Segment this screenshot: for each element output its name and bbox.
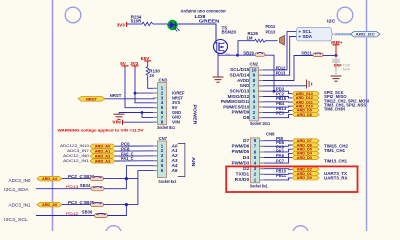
svg-text:D8: D8	[243, 115, 250, 120]
svg-text:POWER: POWER	[193, 105, 198, 125]
wire 5V to pin5	[125, 68, 158, 108]
wire GND pin6	[119, 112, 158, 114]
port ARD_D2	[292, 167, 319, 171]
svg-text:CN6: CN6	[266, 131, 275, 136]
port ARD_D11	[292, 100, 319, 104]
grid circle bottom-right	[293, 226, 309, 240]
svg-text:Socket 8x1: Socket 8x1	[250, 183, 268, 188]
svg-text:D7: D7	[243, 138, 250, 143]
svg-text:NRST: NRST	[86, 97, 98, 101]
svg-text:TIM1_CH1: TIM1_CH1	[324, 148, 346, 153]
svg-text:PWM/CS/D10: PWM/CS/D10	[223, 104, 250, 109]
wire I2C4_SDA row	[36, 188, 91, 190]
wire cn2 pin3 to port	[259, 105, 293, 108]
red highlight UART	[226, 166, 357, 192]
svg-text:ARD_A3: ARD_A3	[95, 159, 111, 163]
wire SB34 to node A4	[104, 179, 126, 189]
port ARD_A1	[90, 149, 115, 153]
sheet border left	[52, 0, 54, 231]
solder bridge SB33	[91, 177, 104, 181]
svg-text:ARD_A1: ARD_A1	[95, 149, 111, 153]
solder bridge SB34	[91, 187, 104, 191]
port ARD_D8	[292, 113, 319, 117]
port ARD_A0	[90, 144, 115, 148]
svg-text:SDA/D14: SDA/D14	[230, 73, 250, 78]
harness box SCL SDA	[297, 28, 335, 41]
junction dot D13	[273, 90, 276, 93]
node VREF junction	[335, 54, 338, 57]
port ARD_A5	[37, 202, 62, 207]
grid circle bottom-left	[106, 226, 122, 240]
svg-text:VIN: VIN	[172, 120, 180, 125]
svg-text:D4: D4	[243, 155, 250, 160]
wire SB33 to node	[104, 178, 138, 180]
ground cn2 rotated	[307, 80, 312, 89]
svg-text:SCL/D15: SCL/D15	[230, 67, 250, 72]
svg-text:PD13: PD13	[276, 71, 286, 76]
port ARD_D4	[292, 151, 319, 155]
junction dot IOREF	[134, 92, 137, 95]
wire SB36 to node A5	[108, 205, 127, 216]
wire I2C4_SCL row	[36, 215, 95, 217]
ground cn3	[118, 113, 120, 115]
wire GND pin7	[259, 85, 307, 87]
svg-text:ARD_A2: ARD_A2	[95, 154, 111, 158]
svg-text:ARD_A0: ARD_A0	[95, 145, 111, 149]
wire cn6 pin1 to port	[260, 178, 293, 180]
wire cn2 pin1 to port	[259, 115, 293, 118]
svg-text:PWM/D5: PWM/D5	[232, 149, 250, 154]
wire SB35 to node	[104, 204, 138, 206]
svg-text:PD13: PD13	[266, 29, 276, 34]
wire NRST to pin3	[105, 97, 158, 100]
svg-text:GND: GND	[240, 83, 250, 88]
wire GND pin7	[142, 113, 158, 118]
svg-text:PE3: PE3	[276, 110, 285, 115]
svg-text:VREF+: VREF+	[331, 40, 343, 45]
port ARD_A2	[90, 154, 115, 158]
svg-text:SB34: SB34	[80, 183, 91, 188]
sheet border right	[366, 0, 368, 31]
wire cn2 pin2 to port	[259, 110, 293, 112]
svg-text:CN2: CN2	[250, 62, 259, 67]
wire cn6 pin6 to port	[260, 149, 293, 152]
wire cn6 pin3 to port	[260, 168, 293, 171]
AIN bracket	[178, 143, 185, 176]
svg-text:1M: 1M	[247, 36, 253, 41]
wire cn6 pin7 to port	[260, 145, 293, 146]
wire A5 vertical pin6	[138, 171, 158, 205]
harness entry	[280, 36, 285, 46]
wire A3 pin4	[115, 160, 158, 162]
port ARD_I2C	[351, 32, 381, 37]
svg-text:TIM8_CH3N: TIM8_CH3N	[324, 107, 345, 112]
wire SCL from CN2 pin10	[259, 32, 299, 70]
capacitor C30 DNF	[335, 56, 337, 60]
svg-text:ADC3_IN1: ADC3_IN1	[9, 202, 32, 207]
solder bridge SB36	[95, 213, 108, 217]
junction dot R126	[236, 54, 239, 57]
grid circle top-left	[65, 7, 81, 23]
svg-text:1K: 1K	[149, 73, 155, 78]
wire LED to T5	[178, 24, 216, 41]
wire R234 to LED	[153, 23, 168, 25]
svg-text:Socket 10x1: Socket 10x1	[250, 121, 270, 126]
port ARD_D13	[292, 92, 319, 96]
wire drain row to SB29	[218, 54, 255, 56]
svg-text:AVDD: AVDD	[237, 78, 249, 83]
svg-text:PD12: PD12	[276, 65, 286, 70]
svg-text:ADC3_IN0: ADC3_IN0	[9, 178, 32, 183]
svg-text:ARD_D2: ARD_D2	[297, 168, 312, 172]
wire SB21 to VREF node	[323, 55, 336, 57]
svg-text:10: 10	[252, 67, 257, 72]
svg-text:VIN: VIN	[112, 119, 121, 124]
wire A4 vertical pin5	[126, 166, 157, 179]
svg-text:DNF: DNF	[334, 62, 343, 67]
svg-text:I2C4_SCL: I2C4_SCL	[4, 217, 29, 222]
svg-text:ARD_D0: ARD_D0	[297, 176, 312, 180]
ground under C30	[331, 76, 342, 81]
port ARD_A3	[90, 159, 115, 163]
port ARD_D6	[292, 143, 319, 147]
svg-text:ADC12_IN1: ADC12_IN1	[63, 158, 90, 163]
port ARD_A4	[37, 176, 62, 181]
svg-text:TIM13_CH1: TIM13_CH1	[324, 159, 348, 164]
wire IOREF branch	[135, 92, 158, 94]
port NRST	[78, 96, 105, 101]
ground under T5	[213, 77, 224, 82]
wire AVDD to SB21	[259, 56, 314, 81]
solder bridge SB35	[91, 203, 104, 207]
svg-text:ARD_A4: ARD_A4	[42, 177, 57, 181]
svg-text:PD12: PD12	[266, 24, 276, 29]
grid circle top-right	[337, 7, 353, 23]
wire cn6 pin4 to port	[260, 158, 293, 164]
port ARD_D10	[292, 104, 319, 108]
svg-text:5V: 5V	[120, 61, 126, 66]
wire cn2 pin5 to port	[259, 97, 293, 98]
svg-text:BSN20: BSN20	[222, 30, 237, 35]
svg-text:PWM/D3: PWM/D3	[232, 160, 250, 165]
svg-text:PB11: PB11	[276, 173, 287, 178]
wire SDA from CN2 pin9	[259, 37, 299, 76]
svg-text:RX/D0: RX/D0	[235, 177, 250, 182]
svg-text:SB29: SB29	[243, 51, 254, 56]
port ARD_D0	[292, 176, 319, 180]
wire cn6 pin5 to port	[260, 153, 293, 157]
svg-text:E5V: E5V	[141, 56, 150, 61]
svg-text:AIN: AIN	[191, 157, 196, 167]
junction dot GND	[141, 111, 144, 114]
LED LD8 GREEN	[167, 20, 177, 30]
harness cable	[335, 33, 352, 35]
wire A0 pin1	[115, 145, 158, 147]
port ARD_D1	[292, 172, 319, 176]
svg-text:MISO/D12: MISO/D12	[228, 94, 250, 99]
svg-text:ARD_A5: ARD_A5	[42, 203, 57, 207]
wire A1 pin2	[115, 150, 158, 152]
wire cn2 pin6 to port	[259, 91, 293, 94]
svg-text:I2C: I2C	[327, 18, 336, 23]
junction dot A4	[125, 177, 128, 180]
wire cn6 pin8 to port	[260, 140, 293, 142]
wire cn2 pin4 to port	[259, 101, 293, 103]
wire A5 row	[62, 204, 91, 206]
svg-text:I2C4_SDA: I2C4_SDA	[4, 187, 29, 192]
svg-text:UART3_RX: UART3_RX	[324, 175, 348, 180]
svg-text:PC2_C: PC2_C	[68, 174, 83, 179]
svg-text:SB36: SB36	[82, 210, 93, 215]
wire T5 source to ground	[217, 53, 219, 78]
svg-text:N/A: N/A	[343, 67, 351, 72]
wire SB29 to CN2 pin6	[265, 55, 274, 91]
svg-text:3V3: 3V3	[117, 22, 126, 27]
port ARD_D9	[292, 108, 319, 112]
svg-text:Socket 8x1: Socket 8x1	[157, 125, 175, 130]
svg-text:PWM/D9: PWM/D9	[232, 110, 250, 115]
svg-text:CN7: CN7	[159, 136, 168, 141]
svg-text:SDA: SDA	[303, 34, 313, 39]
svg-text:CN3: CN3	[159, 77, 168, 82]
svg-text:GREEN: GREEN	[199, 18, 220, 23]
svg-text:3V3: 3V3	[130, 61, 139, 66]
port ARD_D7	[292, 139, 319, 143]
wire cn6 pin2 to port	[260, 173, 293, 176]
wire 3V3 to pin4	[135, 68, 158, 103]
svg-text:A5: A5	[170, 168, 178, 173]
svg-text:SB21: SB21	[301, 51, 312, 56]
port ARD_D12	[292, 96, 319, 100]
svg-text:PC3_C: PC3_C	[68, 200, 83, 205]
svg-text:PD12: PD12	[66, 211, 79, 216]
svg-text:TX/D1: TX/D1	[236, 172, 250, 177]
svg-text:PC7: PC7	[276, 158, 285, 163]
wire A2 pin3	[115, 155, 158, 157]
wire A4 row	[62, 178, 91, 180]
junction dot A5	[125, 203, 128, 206]
svg-text:PWM/D6: PWM/D6	[232, 144, 250, 149]
svg-text:SCK/D13: SCK/D13	[230, 89, 250, 94]
svg-text:PD13: PD13	[66, 184, 79, 189]
svg-text:WARNING voltage applied to VIN: WARNING voltage applied to VIN <11.5V	[58, 128, 144, 133]
svg-text:ARD_I2C: ARD_I2C	[356, 32, 375, 37]
svg-text:PWM/MOSI/D11: PWM/MOSI/D11	[221, 99, 250, 104]
svg-text:510R: 510R	[131, 19, 142, 24]
port ARD_D5	[292, 147, 319, 151]
port ARD_D3	[292, 156, 319, 160]
svg-text:NRST: NRST	[110, 93, 122, 98]
svg-text:ARD_D8: ARD_D8	[297, 113, 312, 117]
svg-text:ARD_D3: ARD_D3	[297, 156, 312, 160]
wire 3V3 to R234	[127, 23, 142, 25]
connector pin stubs	[153, 87, 158, 89]
svg-text:Socket 6x1: Socket 6x1	[158, 179, 176, 184]
